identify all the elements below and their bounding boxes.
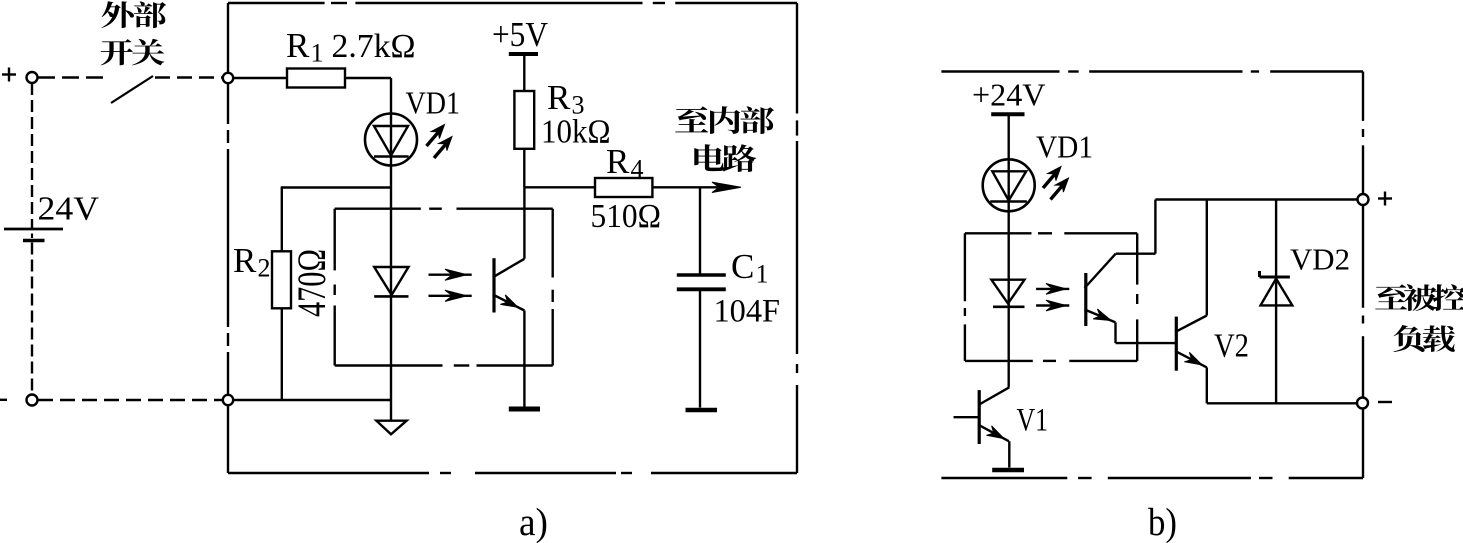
label 至内部电路 [675,106,774,172]
optocoupler U1 box (dash-dot) [335,207,421,209]
svg-text:2.7kΩ: 2.7kΩ [332,28,416,65]
svg-text:104F: 104F [714,294,781,330]
svg-text:R: R [547,78,571,117]
svg-text:510Ω: 510Ω [591,198,662,235]
optocoupler LED wire [390,209,392,400]
wire phototransistor b emitter to V2 base [1114,322,1116,343]
label + terminal [1378,197,1392,199]
svg-text:2: 2 [258,254,271,283]
rail bottom b (dash-dot) [941,477,1067,479]
wire phototransistor collector [523,187,525,258]
LED VD1 light emission arrows [427,129,442,146]
optocoupler box b (dash-dot) [965,232,1032,234]
ground V1 [992,468,1024,473]
svg-text:C: C [731,247,754,286]
optocoupler LED b wire [1008,233,1010,387]
wire dashed bottom return [38,399,223,401]
optocoupler light arrows [429,274,472,276]
optocoupler LED [374,267,408,295]
transistor V1 [979,387,1009,404]
svg-text:V2: V2 [1214,328,1249,365]
resistor R3 [514,91,534,149]
node input terminal bottom [223,395,233,405]
optocoupler phototransistor [492,258,495,312]
wire dashed switch to box terminal [155,76,223,78]
svg-text:10kΩ: 10kΩ [541,114,611,151]
svg-text:VD1: VD1 [1036,129,1093,165]
rail top b (dash-dot) [941,70,1059,72]
svg-text:470Ω: 470Ω [289,249,334,317]
switch 外部开关 blade [111,76,153,103]
svg-text:+24V: +24V [972,77,1046,113]
wire R1 to VD1 [345,77,391,79]
node battery + terminal [27,72,38,83]
wire R2 junction horizontal [281,186,391,188]
optocoupler LED b [991,280,1024,304]
rail right b with terminals [1362,72,1364,121]
svg-text:24V: 24V [38,191,100,228]
battery minus label [0,399,7,401]
svg-text:1: 1 [311,39,324,68]
svg-text:R: R [233,241,257,280]
wire V2 collector [1206,200,1208,316]
label 外部开关 [101,1,167,65]
ground C1 [686,408,718,413]
LED VD1 b [983,159,1035,211]
svg-text:+5V: +5V [492,15,548,54]
resistor R1 [287,69,345,88]
node terminal - [1357,398,1368,409]
svg-text:R: R [286,26,310,65]
label - terminal [1378,401,1392,403]
svg-text:VD1: VD1 [406,85,461,121]
wire VD1 b to optocoupler [1008,211,1010,233]
wire terminal to R1 [233,77,287,79]
label 至被控负载 [1375,284,1463,352]
svg-text:R: R [606,142,630,181]
node input terminal top [223,73,233,83]
wire R3 to junction [523,149,525,188]
wire phototransistor emitter [523,311,525,407]
resistor R2 [272,251,291,308]
ground LED return (open triangle) [390,400,392,420]
wire R2 top [281,188,283,252]
wire V2 emitter to terminal - [1206,367,1208,403]
resistor R4 [595,178,652,197]
wire rail + [1155,198,1357,200]
svg-text:4: 4 [631,155,644,184]
node battery - terminal [27,395,38,406]
node terminal + [1358,194,1369,205]
svg-text:b): b) [1148,501,1177,543]
wire dashed battery+ to switch [38,76,109,78]
wire VD1 to optocoupler [390,166,392,209]
svg-text:1: 1 [756,260,769,289]
wire junction to R4 [524,186,595,188]
wire phototransistor b collector step [1116,252,1156,254]
battery symbol 24V [31,83,33,228]
wire R2 bottom [281,308,283,400]
optocoupler b light arrows [1036,288,1069,290]
wire R4 to output arrow [652,186,736,188]
PLC boundary box a (dash-dot border) [228,2,325,4]
svg-text:a): a) [519,501,548,543]
battery 24V plus label [2,73,16,75]
capacitor C1 [699,187,701,273]
LED VD1 b light arrows [1043,171,1058,188]
optocoupler phototransistor b [1084,273,1087,326]
wire V1 emitter [1008,441,1010,467]
transistor V2 [1175,317,1178,371]
svg-text:V1: V1 [1017,403,1049,439]
ground phototransistor emitter [509,407,540,412]
LED VD1 [365,114,417,166]
svg-text:VD2: VD2 [1290,242,1350,277]
bottom rail wire a [233,399,391,401]
zener diode VD2 [1275,200,1277,404]
wire +24V to VD1 [1008,116,1010,160]
